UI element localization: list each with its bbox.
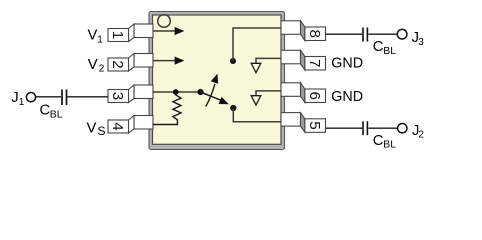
svg-text:V: V — [87, 121, 97, 137]
pin 6 stub — [281, 83, 326, 103]
node switch pole — [197, 89, 203, 95]
svg-text:7: 7 — [306, 59, 323, 67]
svg-text:6: 6 — [306, 91, 323, 99]
node at resistor junction — [173, 89, 179, 95]
svg-text:8: 8 — [306, 29, 323, 37]
svg-text:2: 2 — [99, 64, 105, 75]
svg-text:V: V — [88, 28, 98, 44]
pin 2 stub — [108, 54, 153, 72]
svg-text:4: 4 — [109, 122, 126, 130]
capacitor CBL (input) — [61, 90, 63, 106]
switch wiper arrow — [201, 92, 222, 100]
svg-text:GND: GND — [331, 89, 363, 105]
svg-text:2: 2 — [418, 130, 424, 141]
capacitor CBL (J2) — [362, 121, 364, 135]
pin 3 number — [109, 92, 126, 100]
pin 8 stub — [281, 21, 326, 41]
svg-text:1: 1 — [19, 97, 25, 108]
open triangle to pin 7 — [256, 58, 281, 63]
svg-text:V: V — [88, 57, 98, 73]
IC package U1 inner body — [153, 15, 282, 144]
svg-text:GND: GND — [331, 56, 363, 72]
pin 8 number — [306, 29, 323, 37]
pin 2 number — [109, 60, 126, 68]
wire pin 5 to capacitor — [325, 127, 362, 129]
resistor R1 — [153, 92, 182, 125]
wire pin1 internal arrow — [153, 30, 176, 32]
svg-text:C: C — [373, 133, 384, 149]
wire pin 8 to capacitor — [326, 33, 363, 35]
pin 7 number — [306, 59, 323, 67]
svg-text:2: 2 — [109, 60, 126, 68]
node top throw — [230, 58, 236, 64]
svg-text:3: 3 — [109, 92, 126, 100]
open triangle to pin 6 — [256, 91, 281, 96]
wire capacitor to J3 — [368, 33, 397, 35]
pin 1 indicator circle — [158, 15, 171, 28]
svg-text:5: 5 — [306, 121, 323, 129]
connector J2 — [398, 124, 407, 133]
pin 1 number — [109, 31, 126, 39]
pin 5 stub — [281, 113, 326, 133]
pin 1 stub — [108, 24, 153, 42]
wire J1 to capacitor — [36, 96, 61, 98]
svg-text:J: J — [11, 90, 18, 106]
svg-text:S: S — [97, 124, 105, 138]
svg-text:1: 1 — [109, 31, 126, 39]
pin 4 number — [109, 122, 126, 130]
wire capacitor to pin 3 — [68, 96, 109, 98]
svg-text:BL: BL — [50, 109, 63, 121]
pin 6 number — [306, 91, 323, 99]
node bottom throw — [230, 105, 236, 111]
pin 5 number — [306, 121, 323, 129]
switch motion arc arrow — [206, 84, 215, 107]
wire pin2 internal arrow — [153, 60, 176, 62]
IC package U1 outer body — [149, 12, 285, 150]
svg-text:3: 3 — [418, 37, 424, 48]
svg-text:BL: BL — [383, 45, 396, 57]
capacitor CBL (J3) — [362, 28, 364, 42]
svg-text:1: 1 — [97, 35, 103, 46]
svg-text:C: C — [373, 39, 384, 55]
wire capacitor to J2 — [368, 127, 397, 129]
wire pin3 internal — [153, 91, 201, 93]
svg-text:BL: BL — [383, 139, 396, 151]
connector J3 — [397, 29, 407, 39]
pin 3 stub — [108, 85, 153, 103]
wire bottom throw to pin 5 — [233, 108, 281, 122]
wire top throw to pin 8 — [233, 28, 281, 61]
pin 7 stub — [281, 50, 326, 70]
pin 4 stub — [108, 116, 153, 134]
